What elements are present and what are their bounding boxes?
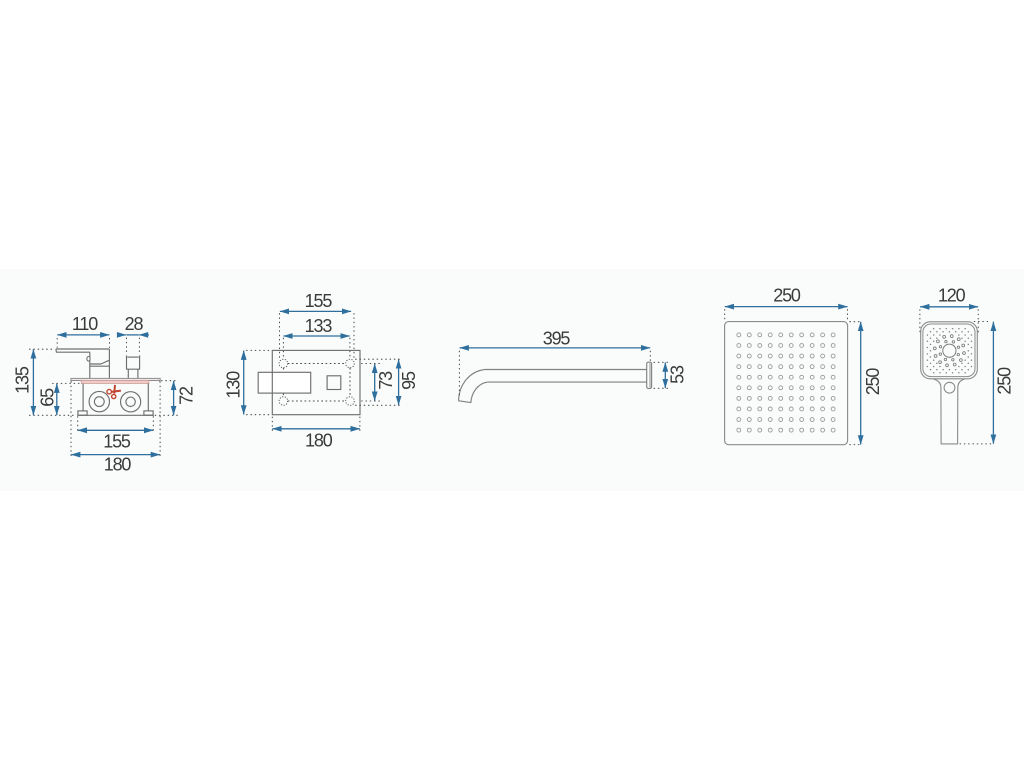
svg-text:250: 250 [995, 367, 1015, 395]
svg-text:180: 180 [104, 455, 132, 475]
svg-text:53: 53 [668, 365, 688, 384]
svg-text:155: 155 [103, 432, 131, 452]
svg-text:130: 130 [223, 371, 243, 399]
svg-text:395: 395 [543, 328, 571, 348]
svg-text:28: 28 [125, 314, 144, 334]
svg-text:73: 73 [376, 371, 396, 390]
svg-text:250: 250 [863, 368, 883, 396]
svg-text:95: 95 [399, 371, 419, 390]
svg-text:72: 72 [176, 386, 196, 405]
svg-text:135: 135 [13, 366, 33, 394]
svg-text:133: 133 [305, 316, 333, 336]
svg-text:120: 120 [938, 285, 966, 305]
svg-text:155: 155 [305, 291, 333, 311]
svg-text:180: 180 [305, 431, 333, 451]
svg-text:110: 110 [72, 314, 98, 334]
svg-text:250: 250 [773, 285, 801, 305]
svg-text:65: 65 [38, 388, 58, 407]
